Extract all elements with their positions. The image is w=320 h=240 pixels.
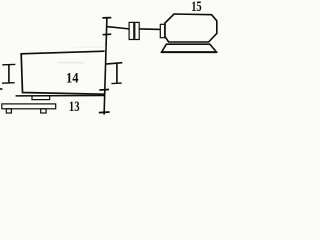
scan mottling near label 13 [80, 102, 89, 103]
trolley left foot [6, 109, 11, 113]
left bearing I top serif [2, 63, 15, 65]
right pulley I bottom serif [111, 82, 121, 85]
trolley right foot [41, 109, 46, 113]
pulley rim bar C [99, 89, 109, 92]
motor shaft boss [160, 24, 164, 37]
svg-text:13: 13 [69, 99, 80, 115]
left bearing I bottom serif [2, 82, 15, 85]
base pad (below base line) [32, 96, 50, 100]
left bearing I bar [8, 65, 10, 83]
motor shaft segment left (belt to coupling) [107, 27, 130, 29]
pulley rim bar top A [102, 17, 111, 19]
stray scan mark left edge [0, 88, 2, 90]
motor shaft segment right (coupling to motor) [139, 28, 160, 31]
pulley rim bar B [103, 33, 112, 36]
motor M body (octagon) [165, 14, 217, 42]
motor base (trapezoid) [162, 44, 217, 52]
coupling C left half [129, 22, 134, 39]
motor base bottom line [161, 51, 217, 53]
gearbox 14 box (top, left, bottom edges) [21, 51, 104, 94]
svg-text:15: 15 [191, 0, 201, 14]
belt line (vertical) [104, 18, 107, 115]
pulley rim bar D (bottom) [99, 111, 110, 114]
coupling C right half [135, 22, 139, 39]
scan smudge above label 14 [57, 62, 84, 64]
output shaft stub right [106, 63, 123, 64]
svg-text:14: 14 [66, 70, 79, 86]
right pulley I bar [116, 63, 118, 83]
base plate line 13 [16, 95, 105, 97]
trolley bar [2, 104, 56, 109]
scan ghost line above box top [74, 47, 106, 48]
